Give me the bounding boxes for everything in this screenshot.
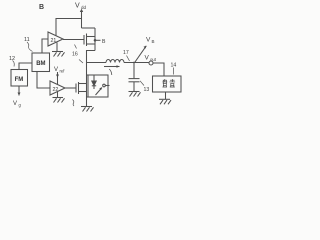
svg-text:V: V bbox=[145, 55, 150, 62]
svg-text:16: 16 bbox=[72, 52, 78, 58]
transistor Q2 (lower NMOS) bbox=[76, 82, 87, 94]
diode inside box bbox=[93, 75, 95, 81]
svg-text:dd: dd bbox=[81, 5, 87, 10]
svg-text:12: 12 bbox=[9, 56, 15, 62]
buffer U22 triangle bbox=[50, 81, 65, 95]
label 16 with leader bbox=[75, 45, 77, 49]
svg-text:V: V bbox=[13, 101, 17, 107]
load box bbox=[153, 76, 182, 92]
transistor Q1 (top NMOS) bbox=[84, 28, 95, 51]
Vref arrow down to buffer 22 bbox=[57, 72, 59, 84]
wire inductor to output node bbox=[124, 62, 149, 64]
ground under bus / Q2 source bbox=[81, 107, 94, 112]
diode box D bbox=[88, 75, 108, 97]
wire buffer 22 ground stem bbox=[57, 92, 59, 98]
svg-text:11: 11 bbox=[24, 37, 30, 43]
inductor L bbox=[106, 60, 124, 63]
ground under buffer 22 bbox=[53, 98, 65, 103]
node B dot on Q1 bbox=[94, 39, 97, 42]
wire Q1 source to switching bus bbox=[87, 51, 96, 107]
buffer U21 triangle bbox=[48, 32, 63, 46]
leader arrow to VB bbox=[135, 46, 146, 62]
wire buffer 22 output to Q2 gate bbox=[65, 87, 76, 89]
svg-text:21: 21 bbox=[51, 38, 57, 44]
label Vref bbox=[54, 67, 65, 74]
label Vg bbox=[13, 101, 22, 108]
svg-text:B: B bbox=[102, 39, 106, 45]
leader squiggle near Q2 bbox=[73, 100, 75, 107]
svg-text:17: 17 bbox=[123, 50, 129, 56]
output terminal circle bbox=[149, 61, 153, 65]
svg-text:ref: ref bbox=[60, 69, 66, 74]
node junction dot at capacitor tap bbox=[133, 62, 135, 64]
modulator box FM bbox=[11, 70, 28, 87]
svg-text:13: 13 bbox=[144, 87, 150, 93]
ground under capacitor bbox=[129, 92, 141, 97]
svg-text:B: B bbox=[152, 39, 155, 44]
svg-text:V: V bbox=[75, 3, 80, 10]
supply Vdd arrowhead bbox=[80, 9, 83, 12]
wire Vdd vertical bbox=[81, 10, 83, 28]
load text glyphs bbox=[162, 79, 175, 87]
leader tick to bus junction bbox=[79, 60, 83, 64]
wire body tick to label B bbox=[95, 39, 101, 41]
svg-text:BM: BM bbox=[36, 61, 45, 67]
label VB bbox=[146, 37, 155, 45]
svg-text:FM: FM bbox=[15, 77, 24, 83]
wire bus to snubber box bbox=[87, 74, 89, 76]
wire bus to inductor bbox=[87, 62, 107, 64]
ground under buffer 21 bbox=[52, 52, 65, 57]
current arrow I bbox=[104, 66, 120, 68]
wire buffer 21 output to Q1 gate bbox=[63, 39, 84, 41]
Vg arrow below FM bbox=[18, 86, 20, 96]
label Vout bbox=[145, 55, 157, 62]
terminal circle on box bbox=[103, 84, 106, 87]
svg-text:V: V bbox=[146, 37, 151, 44]
svg-text:B: B bbox=[39, 4, 44, 11]
wire input to buffer 21 from BM bbox=[42, 39, 48, 53]
ground under load bbox=[159, 99, 171, 104]
wire buffer 21 ground stem bbox=[56, 42, 58, 51]
wire BM bottom to buffer 22 input bbox=[37, 72, 50, 89]
wire load to ground bbox=[165, 92, 167, 99]
wire Vdd to Q1 drain rail bbox=[82, 27, 96, 29]
wire box bottom to bus bbox=[87, 96, 89, 98]
wire terminal to load bbox=[153, 63, 164, 76]
label 13 with leader bbox=[140, 81, 144, 86]
wire Vdd branch left to buffer 21 supply bbox=[56, 19, 82, 36]
arrow inside box bbox=[96, 88, 103, 96]
wire FM top to BM input bbox=[19, 63, 32, 70]
capacitor C13 bbox=[133, 63, 135, 79]
modulator box BM bbox=[32, 53, 50, 72]
supply Vdd label bbox=[75, 3, 87, 11]
leader tick to current arrow bbox=[109, 69, 112, 75]
